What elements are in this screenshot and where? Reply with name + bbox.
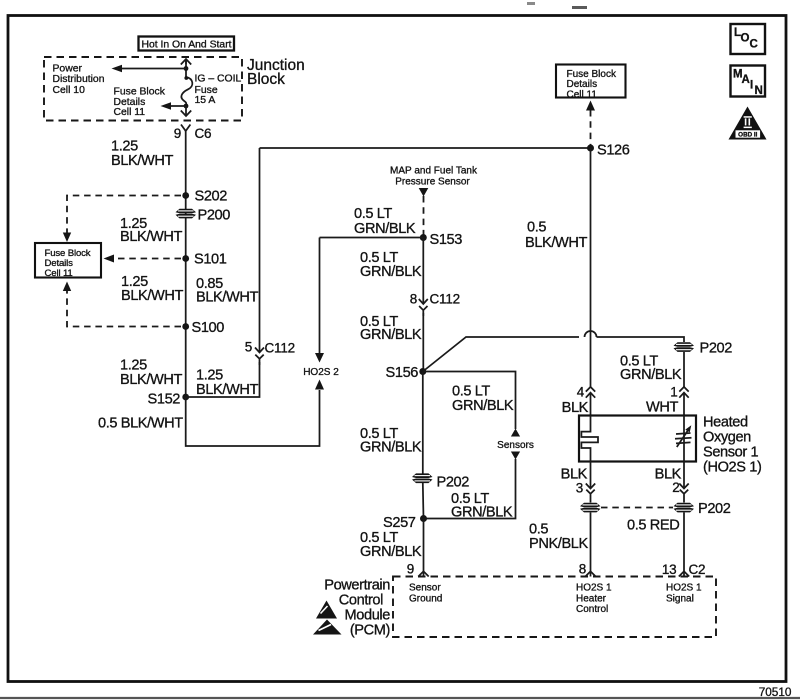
svg-text:HO2S 2: HO2S 2 <box>303 367 339 378</box>
svg-text:S126: S126 <box>597 143 630 159</box>
connector pin 2 <box>672 480 689 503</box>
icon MAIN box <box>731 66 766 98</box>
svg-text:3: 3 <box>576 481 583 496</box>
svg-text:Heated: Heated <box>703 415 748 431</box>
svg-text:HO2S 1: HO2S 1 <box>666 583 702 594</box>
svg-text:Ground: Ground <box>409 593 442 604</box>
connector P200 <box>176 208 231 224</box>
wire S153 left to HO2S2 drop <box>320 237 424 239</box>
svg-text:Cell 11: Cell 11 <box>114 107 146 118</box>
wire S126 down to HO2S1 heater pin 4 <box>590 148 592 387</box>
svg-text:Sensors: Sensors <box>497 440 534 451</box>
arrow down from MAP sensor <box>419 188 429 197</box>
arrow up to Hot feed <box>181 59 191 65</box>
wire S152 down right and up to HO2S 2 <box>186 390 320 446</box>
wire C6 down to S152 <box>185 142 187 397</box>
svg-text:0.5: 0.5 <box>527 220 546 236</box>
arrow up into fuse block box <box>586 101 595 111</box>
svg-text:(PCM): (PCM) <box>350 623 390 639</box>
svg-text:S202: S202 <box>195 189 228 205</box>
connector C6 pin 9 Y symbol <box>174 125 212 143</box>
arrow up at Sensors <box>511 429 520 437</box>
icon LOC box <box>731 24 766 54</box>
svg-text:Cell 11: Cell 11 <box>45 268 73 279</box>
connector pin 4 (HO2S1) <box>577 385 596 416</box>
svg-text:C2: C2 <box>689 562 706 577</box>
wire S156 down to P202 <box>422 372 424 475</box>
svg-text:BLK/WHT: BLK/WHT <box>111 153 174 169</box>
fuse symbol 15A <box>181 77 192 106</box>
svg-text:0.5 RED: 0.5 RED <box>627 518 679 534</box>
wire P202 down to PCM pin 8 <box>590 512 592 576</box>
connector pin 3 <box>576 481 596 503</box>
node S153 <box>420 234 427 241</box>
dashed wire S100 to fuse block details box <box>67 290 181 327</box>
svg-text:WHT: WHT <box>646 400 679 416</box>
arrow left to Power Distribution <box>118 68 186 70</box>
svg-text:S100: S100 <box>192 320 225 336</box>
svg-text:C112: C112 <box>265 341 295 356</box>
wire pin 3 below box <box>590 462 592 489</box>
svg-text:PNK/BLK: PNK/BLK <box>529 536 589 552</box>
svg-text:GRN/BLK: GRN/BLK <box>451 505 513 521</box>
svg-text:Signal: Signal <box>666 593 694 604</box>
ESD symbol triangles <box>313 601 342 635</box>
dashed wire S202 to fuse block details box <box>67 196 181 235</box>
svg-text:S152: S152 <box>148 392 181 408</box>
svg-text:Power: Power <box>53 64 83 75</box>
node S152 <box>182 394 189 401</box>
svg-text:8: 8 <box>579 562 586 577</box>
svg-text:S101: S101 <box>194 252 227 268</box>
svg-text:BLK/WHT: BLK/WHT <box>196 382 259 398</box>
wire S152 right and up to C112 pin 5 <box>186 362 260 397</box>
arrow down to HO2S 2 <box>315 353 324 363</box>
svg-text:Powertrain: Powertrain <box>324 578 390 594</box>
svg-text:P202: P202 <box>437 475 470 491</box>
PCM entry chevron pin 13 <box>679 571 689 576</box>
svg-text:9: 9 <box>407 562 414 577</box>
PCM entry chevron pin 8 <box>585 571 595 576</box>
svg-text:4: 4 <box>577 385 585 400</box>
wire continuing to P202 top right <box>597 337 685 342</box>
svg-text:OBD II: OBD II <box>738 132 757 139</box>
scan mark top 2 <box>572 6 587 9</box>
wire S153 down to C112 pin 8 <box>422 238 424 305</box>
svg-text:P202: P202 <box>700 341 733 357</box>
arrow down at Sensors <box>511 452 520 460</box>
svg-text:O: O <box>741 33 750 45</box>
svg-text:Control: Control <box>339 593 383 609</box>
node S126 <box>587 145 594 152</box>
connector P202 (center) <box>412 473 469 490</box>
svg-text:9: 9 <box>174 126 181 141</box>
svg-text:BLK: BLK <box>561 467 588 483</box>
arrow up to HO2S 2 <box>315 380 324 390</box>
svg-text:S153: S153 <box>430 232 463 248</box>
scan mark top <box>527 2 535 5</box>
svg-text:HO2S 1: HO2S 1 <box>576 583 612 594</box>
svg-text:GRN/BLK: GRN/BLK <box>452 398 514 414</box>
connector pin 1 (HO2S1) <box>670 385 689 416</box>
icon OBD II triangle <box>729 107 767 140</box>
dashed wire S126 up to fuse block box <box>590 110 592 145</box>
svg-text:70510: 70510 <box>759 685 792 699</box>
svg-text:GRN/BLK: GRN/BLK <box>360 544 422 560</box>
svg-text:S257: S257 <box>383 515 416 531</box>
svg-text:C6: C6 <box>195 126 212 141</box>
svg-text:BLK/WHT: BLK/WHT <box>120 372 183 388</box>
svg-text:Heater: Heater <box>576 593 607 604</box>
wire vertical inside junction block <box>185 61 187 78</box>
svg-text:(HO2S 1): (HO2S 1) <box>703 460 761 476</box>
svg-text:Cell 11: Cell 11 <box>567 89 598 100</box>
wire from S153 down to HO2S 2 <box>319 238 321 354</box>
svg-text:5: 5 <box>245 340 252 355</box>
svg-text:GRN/BLK: GRN/BLK <box>360 264 422 280</box>
wire S156 diagonal to P202 (HO2S1 signal feed) <box>423 337 579 372</box>
svg-text:BLK/WHT: BLK/WHT <box>525 235 588 251</box>
connector P202 (bottom left) <box>580 503 601 513</box>
svg-text:GRN/BLK: GRN/BLK <box>360 440 422 456</box>
node S101 <box>182 255 189 262</box>
svg-text:8: 8 <box>410 292 417 307</box>
wire hop over BLK/WHT wire <box>585 331 597 337</box>
arrow down to C6 <box>181 106 191 116</box>
svg-text:N: N <box>755 85 763 97</box>
dashed link between P202 halves <box>601 507 673 509</box>
svg-text:P200: P200 <box>198 208 231 224</box>
svg-text:2: 2 <box>672 480 679 495</box>
junction dot lower <box>184 104 189 109</box>
wire P202 down to PCM pin 13 <box>683 512 685 576</box>
junction block dashed box <box>44 57 242 121</box>
svg-text:15 A: 15 A <box>195 95 216 106</box>
fuse block details box (left) <box>35 243 101 279</box>
bottom separator line <box>0 697 800 699</box>
svg-text:BLK: BLK <box>562 400 589 416</box>
wire P202 down to pin 1 <box>683 352 685 387</box>
svg-text:Sensor 1: Sensor 1 <box>703 445 758 461</box>
svg-text:0.5 BLK/WHT: 0.5 BLK/WHT <box>98 416 183 432</box>
node S156 <box>419 368 426 375</box>
Hot In On And Start box <box>139 37 235 51</box>
svg-text:Control: Control <box>576 604 608 615</box>
svg-text:GRN/BLK: GRN/BLK <box>620 367 682 383</box>
svg-text:Pressure Sensor: Pressure Sensor <box>395 177 470 188</box>
svg-text:Block: Block <box>247 71 285 88</box>
svg-text:Hot In On And Start: Hot In On And Start <box>141 40 231 51</box>
connector C112 pin 8 <box>410 292 460 317</box>
svg-text:GRN/BLK: GRN/BLK <box>354 221 416 237</box>
dashed wire MAP to S153 <box>423 196 425 235</box>
arrow left to Fuse Block Details <box>167 105 186 107</box>
wire Sensors down to S257 <box>424 459 516 519</box>
connector C112 pin 5 <box>245 148 295 365</box>
node S100 <box>182 323 189 330</box>
svg-text:Module: Module <box>345 608 391 624</box>
wire C112 pin8 down to S156 <box>422 313 424 372</box>
dashed arrow S101 to fuse block box <box>114 258 181 260</box>
svg-text:MAP and Fuel Tank: MAP and Fuel Tank <box>390 166 478 177</box>
top horizontal wire to S126 <box>260 147 591 149</box>
svg-text:BLK/WHT: BLK/WHT <box>120 229 183 245</box>
svg-text:Cell 10: Cell 10 <box>53 85 86 96</box>
PCM dashed box <box>393 577 716 638</box>
svg-text:Oxygen: Oxygen <box>703 430 751 446</box>
svg-text:Distribution: Distribution <box>53 74 105 85</box>
svg-text:BLK/WHT: BLK/WHT <box>196 290 259 306</box>
svg-text:S156: S156 <box>386 365 419 381</box>
connector P202 (top right) <box>674 341 733 357</box>
heater element symbol <box>581 416 598 462</box>
svg-text:I: I <box>750 80 753 92</box>
svg-text:BLK/WHT: BLK/WHT <box>121 288 184 304</box>
connector P202 (bottom right) <box>674 501 731 517</box>
svg-text:GRN/BLK: GRN/BLK <box>360 327 422 343</box>
wire pin 2 below box <box>683 462 685 489</box>
PCM entry chevron pin 9 <box>418 571 428 576</box>
svg-text:0.5 LT: 0.5 LT <box>354 206 392 222</box>
fuse block details box (top right) <box>556 65 626 101</box>
svg-text:IG – COIL: IG – COIL <box>195 74 242 85</box>
svg-text:A: A <box>742 74 750 86</box>
svg-text:1: 1 <box>670 385 677 400</box>
wire P202 down to S257 <box>422 483 425 519</box>
oxygen sensor element symbol <box>675 416 692 462</box>
wire S156 right to Sensors <box>423 372 516 430</box>
svg-text:C: C <box>750 39 758 51</box>
svg-text:P202: P202 <box>698 501 731 517</box>
svg-text:Sensor: Sensor <box>409 583 441 594</box>
svg-text:13: 13 <box>662 562 677 577</box>
junction dot in junction block <box>184 66 189 71</box>
HO2S1 component box <box>579 416 696 462</box>
svg-text:C112: C112 <box>430 292 460 307</box>
node S257 <box>420 515 427 522</box>
wire S257 down to PCM pin 9 <box>423 519 425 577</box>
node S202 <box>182 192 189 199</box>
